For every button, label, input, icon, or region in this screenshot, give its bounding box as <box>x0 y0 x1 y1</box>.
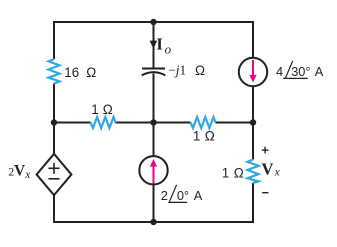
svg-text:A: A <box>315 64 324 79</box>
svg-text:1: 1 <box>222 165 229 180</box>
svg-text:Ω: Ω <box>205 129 215 144</box>
svg-text:4: 4 <box>276 64 283 79</box>
svg-text:30°: 30° <box>291 64 310 79</box>
svg-text:Ω: Ω <box>103 102 113 117</box>
svg-text:Ω: Ω <box>86 65 96 80</box>
svg-text:−j1: −j1 <box>168 63 186 78</box>
svg-text:0°: 0° <box>177 188 189 203</box>
svg-text:16: 16 <box>64 65 79 80</box>
svg-text:2: 2 <box>161 188 168 203</box>
svg-text:Ω: Ω <box>234 165 244 180</box>
svg-text:Ω: Ω <box>195 63 205 78</box>
svg-text:1: 1 <box>193 129 200 144</box>
svg-text:A: A <box>194 188 203 203</box>
svg-text:1: 1 <box>91 102 98 117</box>
